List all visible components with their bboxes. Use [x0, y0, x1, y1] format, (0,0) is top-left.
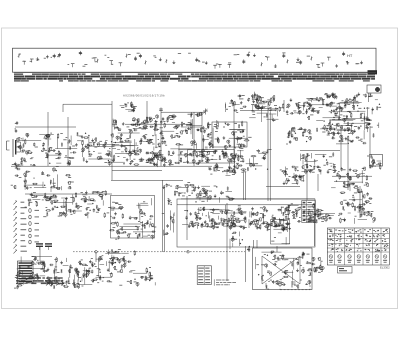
- wire vertical V29: [244, 172, 246, 200]
- wire vertical V23: [256, 240, 258, 248]
- wire supply rail B: [177, 204, 315, 206]
- wire vertical V5: [160, 112, 162, 166]
- mains transformer cluster T1: [14, 256, 81, 289]
- top coupling cluster: [225, 92, 258, 113]
- oscillator box: [188, 150, 235, 164]
- left margin bracket: [7, 141, 10, 150]
- wire vertical V11: [283, 100, 285, 112]
- wire horizontal H14: [266, 185, 300, 187]
- AGC network cluster: [11, 161, 74, 193]
- AF pre-driver cluster: [280, 164, 307, 185]
- wire vertical V28: [243, 169, 245, 200]
- net label HT: [347, 53, 353, 58]
- svg-text:HT: HT: [347, 53, 353, 58]
- wire vertical V13: [226, 203, 228, 281]
- feedback box cluster: [271, 218, 291, 244]
- mixer stage cluster B1: [83, 130, 162, 167]
- wire vertical V18: [95, 252, 97, 262]
- terminal block: [368, 70, 378, 74]
- wire aerial input: [15, 126, 76, 128]
- band filter box: [212, 122, 247, 147]
- wire vertical V3: [111, 101, 113, 180]
- wire dashed chassis link: [73, 251, 245, 253]
- wire anode bus: [240, 110, 276, 112]
- wire vertical V6: [193, 112, 195, 166]
- wire horizontal H12: [300, 149, 340, 151]
- wire vertical V30: [317, 174, 319, 191]
- dipole aerial box: [367, 85, 381, 102]
- output stage box: [253, 248, 313, 290]
- pick-up dashed outline: [268, 281, 310, 290]
- schematic title text: [123, 93, 165, 97]
- valve labels TS2: [120, 101, 137, 112]
- wire HT bus upper: [161, 111, 205, 113]
- osc coil cluster: [148, 153, 166, 162]
- valve data table: [327, 228, 389, 265]
- input filter cluster L1/C1: [16, 132, 85, 162]
- wire top box left: [63, 103, 112, 105]
- wire vertical V2: [67, 117, 69, 166]
- small RC cluster: [286, 127, 312, 145]
- smoothing cluster: [76, 258, 126, 289]
- wire vertical V7: [201, 112, 203, 160]
- heater chain cluster: [25, 192, 57, 208]
- legend footnote lines: [214, 279, 236, 286]
- wave-switch box cluster: [108, 198, 156, 240]
- keyboard switch cluster: [43, 190, 109, 218]
- wire vertical V1 grid: [47, 112, 49, 166]
- node on chassis link: [95, 251, 98, 254]
- output stage cluster B5: [255, 251, 312, 290]
- capacitor bank C90-C92: [36, 243, 52, 250]
- aerial/earth input arrows column: [14, 201, 27, 254]
- wire main horizontal bus: [11, 165, 212, 167]
- tuning indicator box: [370, 155, 383, 167]
- discriminator cluster: [338, 188, 376, 224]
- chassis box AF section: [177, 199, 315, 247]
- top tuning-range box outline: [13, 48, 377, 72]
- ground group bottom left: [68, 280, 80, 284]
- table footnote box: [338, 267, 353, 274]
- volume control chain: [162, 183, 174, 235]
- mains terminal strip rows: [16, 277, 64, 284]
- wire vertical V8: [233, 101, 235, 160]
- IF transformer cluster S1: [306, 92, 381, 132]
- wire vertical V20: [340, 128, 342, 170]
- detector cluster B3: [249, 94, 282, 122]
- indicator tube cluster: [367, 155, 382, 170]
- wire vertical V21: [359, 186, 361, 218]
- wire vertical V4: [146, 101, 148, 124]
- band filter cluster: [208, 120, 252, 150]
- AVC filter cluster: [174, 182, 196, 196]
- wire vertical V24: [276, 246, 278, 252]
- top band wavelength scale text rows: [14, 73, 376, 82]
- grid stopper symbol: [159, 108, 163, 113]
- top band trimmer and coil symbols: [18, 51, 363, 69]
- wire top box left drop: [62, 104, 64, 112]
- wire vertical V27: [306, 153, 308, 200]
- wire vertical V19: [39, 247, 41, 261]
- wire cathode line: [111, 179, 183, 181]
- wire vertical V22: [253, 240, 255, 248]
- tone network cluster: [261, 206, 291, 232]
- wire vertical V17: [186, 196, 188, 240]
- type label EL3302: [380, 266, 390, 270]
- frame aerial A1: [13, 121, 21, 157]
- connector arrows row: [46, 281, 64, 285]
- AF driver band cluster: [182, 205, 266, 231]
- rectifier cluster: [99, 249, 136, 265]
- wire vertical V26: [369, 126, 371, 155]
- wire vertical V25: [347, 140, 349, 190]
- coupling cluster C20: [230, 149, 272, 173]
- wire IF bus: [125, 123, 192, 125]
- wire crossover in output stage: [262, 256, 300, 284]
- IF amplifier cluster B2: [159, 112, 213, 167]
- wire vertical V12: [314, 203, 316, 246]
- ratio detector cluster: [331, 167, 368, 191]
- wire vertical V9: [267, 101, 269, 201]
- wire vertical V14: [245, 246, 247, 282]
- oscillator cluster B4: [188, 149, 236, 164]
- top right AF cluster: [284, 203, 335, 223]
- filter cluster: [282, 98, 312, 115]
- node on chassis link right: [187, 251, 190, 254]
- demod cluster: [326, 123, 374, 144]
- wire vertical V15: [162, 180, 164, 252]
- wire vertical V10: [269, 112, 271, 201]
- socket circles column: [29, 209, 39, 244]
- IF input row cluster: [112, 115, 159, 135]
- wire horizontal H13: [332, 175, 372, 177]
- speaker matching cluster: [311, 257, 324, 272]
- wire AVC line: [112, 170, 162, 172]
- osc padder cluster: [208, 162, 238, 175]
- chassis box keyboard section: [111, 196, 155, 239]
- mid bus cluster: [196, 186, 235, 203]
- wire heater line: [25, 193, 112, 195]
- supply marks cluster: [230, 232, 250, 252]
- voltage legend table: [197, 266, 211, 285]
- electrolytic bank cluster: [127, 267, 155, 287]
- AF preamp cluster: [300, 153, 335, 175]
- wire supply rail A: [181, 198, 315, 200]
- decoupling node X1: [203, 109, 208, 115]
- push-button switch chart: [302, 201, 316, 223]
- wire vertical V16: [163, 185, 165, 252]
- svg-text:AX2366/00/01/02/16/17/19b: AX2366/00/01/02/16/17/19b: [123, 93, 165, 97]
